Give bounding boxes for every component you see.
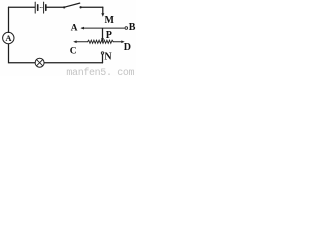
rail left arrowhead toward A — [80, 27, 84, 30]
wire N terminal ring — [101, 52, 103, 54]
svg-text:A: A — [5, 34, 11, 43]
battery cell 1 long plate — [34, 2, 36, 13]
wire N vertical — [102, 54, 104, 62]
arrowhead M pointing down — [101, 13, 104, 16]
wire bottom right to lamp — [44, 62, 102, 64]
svg-text:N: N — [104, 52, 112, 63]
battery cell 2 short thick plate — [45, 5, 47, 11]
wire battery to switch — [47, 6, 64, 8]
resistance coil zigzag — [88, 40, 114, 43]
wire M drop with arrow — [102, 7, 104, 13]
wire ammeter up to top-left corner — [8, 7, 10, 32]
coil left lead — [76, 41, 88, 43]
wire switch to top-right corner — [81, 6, 102, 8]
svg-text:B: B — [129, 22, 136, 33]
svg-text:M: M — [105, 15, 115, 26]
rheostat rail A-B — [82, 27, 125, 29]
switch right terminal dot — [79, 6, 81, 8]
svg-text:A: A — [71, 23, 78, 33]
battery dashed middle dots — [40, 7, 41, 8]
wire top-left horizontal — [9, 6, 35, 8]
svg-text:manfen5. com: manfen5. com — [66, 67, 134, 76]
terminal circle B — [125, 27, 128, 30]
ammeter circle — [3, 32, 14, 43]
coil left arrowhead toward C — [73, 40, 76, 43]
wire lamp to bottom-left corner — [9, 44, 36, 63]
switch lever (open) — [64, 3, 79, 7]
svg-text:D: D — [124, 42, 131, 53]
battery cell 2 long plate — [43, 2, 45, 13]
slider arrowhead onto coil — [101, 38, 104, 42]
svg-text:C: C — [70, 47, 77, 57]
coil right lead — [113, 41, 121, 43]
slider stem from rail — [102, 29, 104, 39]
lamp cross — [37, 60, 43, 66]
switch left terminal dot — [63, 6, 65, 8]
coil right arrowhead toward D — [121, 40, 124, 43]
lamp L circle — [35, 58, 44, 67]
battery cell 1 short thick plate — [37, 5, 39, 11]
